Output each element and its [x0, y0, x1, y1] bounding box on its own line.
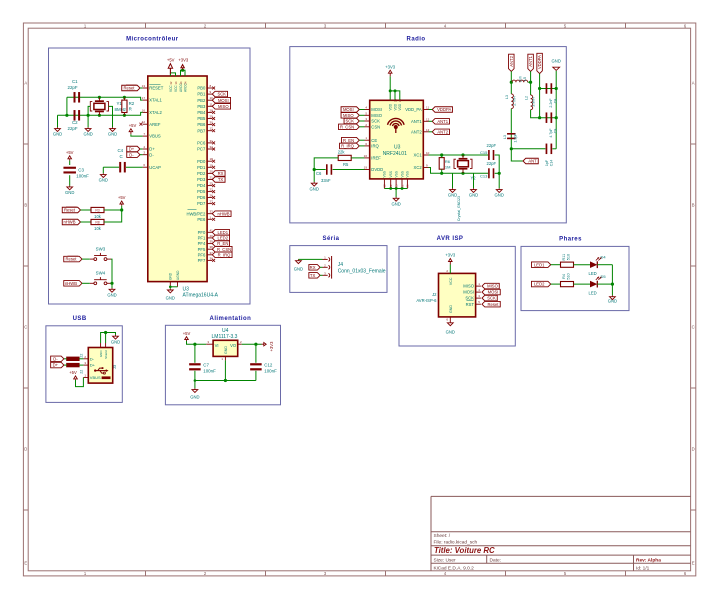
svg-text:ANT2: ANT2 [437, 129, 448, 134]
svg-text:J4: J4 [338, 262, 344, 268]
svg-text:D-: D- [53, 356, 58, 361]
svg-text:MOSI: MOSI [218, 98, 229, 103]
svg-text:D: D [692, 447, 695, 452]
svg-text:GND: GND [449, 305, 453, 313]
svg-text:25: 25 [394, 184, 398, 188]
svg-text:PF5: PF5 [198, 247, 206, 252]
svg-text:VDD: VDD [393, 103, 397, 110]
svg-text:PD7: PD7 [197, 201, 206, 206]
svg-text:B: B [24, 203, 27, 208]
svg-text:+5V: +5V [69, 370, 77, 375]
svg-text:+3V3: +3V3 [445, 253, 456, 258]
svg-text:12: 12 [426, 117, 430, 121]
svg-text:MOSI: MOSI [488, 290, 499, 295]
svg-text:16: 16 [364, 154, 368, 158]
svg-text:XC2: XC2 [414, 165, 423, 170]
svg-text:D+: D+ [149, 147, 155, 152]
svg-text:C: C [692, 325, 695, 330]
svg-text:GND: GND [53, 132, 62, 137]
svg-text:42: 42 [142, 120, 146, 124]
svg-text:PD2: PD2 [197, 171, 206, 176]
svg-text:L3: L3 [503, 135, 507, 139]
svg-text:510: 510 [567, 273, 571, 279]
svg-text:CSN: CSN [371, 124, 380, 129]
svg-text:10: 10 [426, 151, 430, 155]
svg-text:R_CSN: R_CSN [217, 247, 231, 252]
svg-text:D-: D- [129, 152, 134, 157]
svg-text:IREF: IREF [371, 156, 381, 161]
svg-text:GND: GND [310, 186, 319, 191]
svg-text:D+: D+ [53, 363, 59, 368]
svg-text:LED2: LED2 [534, 282, 545, 287]
svg-text:ANT1: ANT1 [411, 119, 422, 124]
svg-text:MOSI: MOSI [343, 107, 354, 112]
svg-text:U4: U4 [222, 328, 229, 334]
svg-text:USB: USB [73, 316, 87, 322]
svg-text:D-: D- [90, 356, 95, 361]
svg-text:LED: LED [589, 291, 597, 296]
svg-text:nHWB: nHWB [217, 211, 229, 216]
svg-text:Size: User: Size: User [434, 557, 457, 563]
svg-text:RX: RX [310, 265, 316, 270]
svg-text:11: 11 [426, 106, 429, 110]
svg-text:SCK: SCK [345, 119, 354, 124]
svg-text:VSS: VSS [389, 171, 393, 177]
svg-text:HWB/PE2: HWB/PE2 [186, 211, 206, 216]
svg-text:22: 22 [389, 184, 393, 188]
svg-text:R_IRQ: R_IRQ [341, 144, 355, 149]
svg-text:33nF: 33nF [321, 178, 331, 183]
svg-text:VSS: VSS [400, 171, 404, 177]
svg-text:PD5: PD5 [197, 189, 206, 194]
svg-text:VCC: VCC [174, 85, 178, 92]
svg-text:2.7nH: 2.7nH [512, 96, 516, 106]
svg-text:PF1: PF1 [198, 236, 206, 241]
svg-text:GND: GND [190, 394, 199, 399]
svg-text:U3: U3 [394, 144, 401, 150]
svg-text:L5: L5 [523, 77, 527, 81]
svg-text:1M: 1M [445, 164, 451, 169]
svg-text:AVR ISP: AVR ISP [437, 236, 464, 242]
svg-text:C6: C6 [316, 171, 322, 176]
svg-text:100nF: 100nF [203, 369, 216, 374]
svg-text:PF6: PF6 [198, 252, 206, 257]
svg-text:C1: C1 [72, 79, 78, 84]
svg-text:22pF: 22pF [68, 126, 78, 131]
svg-text:PB6: PB6 [197, 122, 206, 127]
svg-text:Reset: Reset [64, 208, 76, 213]
svg-text:PC7: PC7 [197, 147, 206, 152]
svg-text:AVR-ISP-6: AVR-ISP-6 [416, 298, 437, 303]
svg-text:D+: D+ [90, 363, 96, 368]
svg-text:Radio: Radio [407, 37, 426, 43]
svg-text:+5V: +5V [167, 58, 175, 63]
svg-text:LED: LED [589, 271, 597, 276]
svg-text:MOSI: MOSI [371, 107, 382, 112]
svg-text:PB5: PB5 [197, 116, 206, 121]
svg-text:PD1: PD1 [197, 165, 206, 170]
svg-text:GND: GND [107, 292, 116, 297]
svg-text:GND: GND [469, 193, 478, 198]
svg-text:GND: GND [448, 193, 457, 198]
svg-text:VSS: VSS [394, 171, 398, 177]
svg-text:PB2: PB2 [197, 98, 206, 103]
svg-text:PF0: PF0 [198, 230, 206, 235]
svg-text:Title: Voiture RC: Title: Voiture RC [434, 546, 495, 555]
svg-text:PF7: PF7 [198, 258, 206, 263]
svg-text:RX: RX [218, 171, 224, 176]
svg-text:B: B [692, 203, 695, 208]
svg-text:VSS: VSS [406, 171, 410, 177]
svg-text:R11: R11 [562, 254, 566, 261]
svg-text:ANT1: ANT1 [528, 55, 533, 66]
svg-text:2.2nF: 2.2nF [549, 98, 553, 108]
svg-text:PD3: PD3 [197, 177, 206, 182]
svg-text:1pF: 1pF [545, 159, 549, 166]
svg-text:ANT2: ANT2 [411, 129, 422, 134]
svg-text:J2: J2 [432, 292, 437, 297]
svg-text:8MHz: 8MHz [115, 107, 126, 112]
svg-text:AVCC: AVCC [179, 83, 183, 92]
svg-text:LED1: LED1 [218, 230, 229, 235]
svg-text:100nF: 100nF [76, 174, 89, 179]
svg-text:XTAL2: XTAL2 [149, 110, 162, 115]
svg-text:GND: GND [108, 132, 117, 137]
svg-text:AVCC: AVCC [183, 83, 187, 92]
svg-text:19: 19 [364, 166, 368, 170]
svg-text:+5V: +5V [66, 150, 74, 155]
svg-text:21: 21 [400, 184, 404, 188]
svg-text:+5V: +5V [118, 195, 126, 200]
svg-text:CE: CE [371, 138, 377, 143]
svg-text:GND: GND [111, 339, 120, 344]
svg-text:VCC: VCC [169, 85, 173, 92]
svg-text:D-: D- [149, 152, 154, 157]
svg-text:VDD: VDD [389, 103, 393, 110]
svg-text:TX: TX [218, 177, 224, 182]
svg-text:SCK: SCK [217, 92, 226, 97]
svg-text:Crystal_GND23: Crystal_GND23 [457, 196, 461, 221]
svg-text:PB4: PB4 [197, 110, 206, 115]
svg-text:GND: GND [224, 346, 228, 354]
svg-text:VBUS: VBUS [90, 375, 101, 380]
svg-text:D: D [24, 447, 27, 452]
svg-text:SCK: SCK [487, 296, 496, 301]
svg-text:+3V3: +3V3 [178, 58, 189, 63]
svg-text:32: 32 [169, 81, 173, 85]
svg-text:GND: GND [294, 266, 303, 271]
svg-text:GND: GND [99, 178, 108, 183]
svg-text:17: 17 [142, 96, 146, 100]
svg-text:PF4: PF4 [198, 241, 206, 246]
svg-text:16: 16 [142, 108, 146, 112]
svg-text:TX: TX [310, 273, 316, 278]
svg-text:30: 30 [398, 99, 402, 103]
svg-text:D4: D4 [601, 254, 607, 259]
svg-text:C4: C4 [118, 148, 124, 153]
svg-text:PD6: PD6 [197, 195, 206, 200]
svg-text:20: 20 [406, 184, 410, 188]
svg-text:GND: GND [169, 272, 173, 280]
svg-text:Conn_01x03_Female: Conn_01x03_Female [338, 268, 386, 274]
svg-text:SCK: SCK [371, 119, 380, 124]
svg-text:1.5pF: 1.5pF [514, 133, 518, 143]
svg-text:22k: 22k [338, 149, 346, 154]
svg-text:ANT1: ANT1 [437, 119, 448, 124]
svg-text:VBUS: VBUS [149, 134, 161, 139]
svg-text:22: 22 [79, 370, 83, 374]
svg-text:ATmega16U4-A: ATmega16U4-A [183, 292, 219, 298]
svg-text:R_CSN: R_CSN [340, 124, 354, 129]
svg-text:IRQ: IRQ [371, 144, 379, 149]
svg-text:LM1117-3.3: LM1117-3.3 [212, 334, 238, 340]
svg-text:LED1: LED1 [534, 262, 545, 267]
svg-text:XTAL1: XTAL1 [149, 98, 162, 103]
svg-text:+3V3: +3V3 [385, 64, 396, 69]
svg-text:VO: VO [230, 343, 237, 348]
svg-text:UCAP: UCAP [149, 165, 161, 170]
svg-text:R6: R6 [445, 159, 451, 164]
svg-text:MISO: MISO [343, 113, 354, 118]
svg-text:C8: C8 [553, 99, 557, 104]
svg-text:E: E [24, 561, 27, 566]
svg-text:4.7pF: 4.7pF [549, 128, 553, 138]
svg-text:nHWB: nHWB [63, 220, 75, 225]
svg-text:13: 13 [426, 128, 430, 132]
svg-text:DVDD: DVDD [371, 167, 383, 172]
svg-text:nHWB: nHWB [65, 281, 77, 286]
svg-text:Date:: Date: [490, 557, 501, 563]
svg-text:VDD: VDD [398, 103, 402, 110]
svg-text:File: radio.kicad_sch: File: radio.kicad_sch [434, 539, 478, 545]
svg-text:PD0: PD0 [197, 159, 206, 164]
svg-text:A: A [692, 81, 695, 86]
svg-text:GND: GND [65, 190, 74, 195]
svg-text:C15: C15 [480, 150, 488, 155]
svg-text:+5V: +5V [129, 123, 137, 128]
svg-text:Sheet: /: Sheet: / [434, 533, 451, 539]
svg-text:C3: C3 [78, 167, 84, 172]
svg-text:UGND: UGND [176, 270, 180, 280]
svg-text:C13: C13 [480, 174, 488, 179]
svg-text:C12: C12 [264, 362, 273, 367]
svg-text:C9: C9 [553, 129, 557, 134]
svg-text:L3: L3 [505, 95, 509, 99]
svg-text:+3V3: +3V3 [269, 341, 274, 352]
svg-text:PD4: PD4 [197, 183, 206, 188]
svg-text:15: 15 [393, 99, 397, 103]
svg-text:PB0: PB0 [197, 86, 206, 91]
svg-text:VI: VI [215, 343, 219, 348]
svg-text:C14: C14 [549, 160, 553, 167]
svg-text:KiCad E.D.A. 9.0.2: KiCad E.D.A. 9.0.2 [434, 565, 475, 571]
svg-text:VDDPA: VDDPA [437, 107, 451, 112]
svg-text:D5: D5 [601, 274, 607, 279]
svg-text:MISO: MISO [218, 104, 229, 109]
svg-text:Reset: Reset [66, 257, 78, 262]
svg-text:GND: GND [83, 132, 92, 137]
svg-text:R8: R8 [95, 220, 99, 224]
svg-text:GND: GND [166, 295, 175, 300]
svg-text:R4: R4 [562, 274, 566, 279]
svg-text:RESET: RESET [149, 86, 163, 91]
svg-text:R3: R3 [95, 208, 99, 212]
svg-text:RST: RST [466, 302, 475, 307]
svg-text:R: R [129, 107, 132, 112]
svg-text:NRF24L01: NRF24L01 [383, 151, 407, 157]
svg-text:Phares: Phares [559, 237, 582, 243]
svg-text:510: 510 [567, 254, 571, 260]
svg-text:Reset: Reset [124, 86, 136, 91]
svg-text:Id: 1/1: Id: 1/1 [636, 565, 650, 571]
svg-text:GND: GND [99, 350, 103, 358]
svg-text:10k: 10k [94, 226, 102, 231]
svg-text:PB3: PB3 [197, 104, 206, 109]
svg-text:R_EN: R_EN [217, 241, 228, 246]
svg-text:22: 22 [79, 354, 83, 358]
svg-text:PC6: PC6 [197, 141, 206, 146]
svg-text:18: 18 [383, 184, 387, 188]
svg-text:E: E [692, 561, 695, 566]
svg-text:SW3: SW3 [96, 247, 106, 252]
svg-text:13: 13 [142, 84, 146, 88]
svg-text:VDDPA: VDDPA [537, 55, 542, 69]
svg-text:Séria: Séria [323, 236, 340, 242]
svg-text:XC1: XC1 [414, 153, 423, 158]
svg-text:ANT: ANT [528, 159, 537, 164]
svg-text:22pF: 22pF [68, 85, 78, 90]
svg-text:Shield: Shield [104, 350, 108, 359]
svg-text:C: C [24, 325, 27, 330]
svg-text:14: 14 [174, 81, 178, 85]
svg-text:MISO: MISO [371, 113, 382, 118]
svg-text:PB7: PB7 [197, 128, 206, 133]
svg-text:GND: GND [552, 59, 561, 64]
svg-text:SCK: SCK [465, 296, 474, 301]
svg-text:Alimentation: Alimentation [210, 316, 252, 322]
svg-text:100nF: 100nF [264, 369, 277, 374]
svg-text:Reset: Reset [488, 302, 500, 307]
svg-text:SW4: SW4 [96, 270, 106, 275]
svg-text:R5: R5 [343, 162, 349, 167]
svg-text:22pF: 22pF [487, 161, 497, 166]
svg-text:GND: GND [446, 330, 455, 335]
svg-text:ANT2: ANT2 [509, 55, 514, 66]
svg-text:GND: GND [608, 299, 617, 304]
svg-text:Rev: Alpha: Rev: Alpha [636, 557, 661, 563]
svg-text:R_IRQ: R_IRQ [218, 252, 232, 257]
svg-text:L2: L2 [524, 96, 528, 100]
svg-text:A: A [24, 81, 27, 86]
svg-text:Microcontrôleur: Microcontrôleur [126, 37, 179, 43]
svg-text:MOSI: MOSI [463, 290, 474, 295]
svg-text:MISO: MISO [487, 284, 498, 289]
svg-text:R2: R2 [129, 101, 135, 106]
svg-text:3.9nH: 3.9nH [532, 97, 536, 107]
svg-text:VCC: VCC [449, 277, 453, 285]
svg-text:PB1: PB1 [197, 92, 206, 97]
svg-text:VSS: VSS [383, 171, 387, 177]
svg-text:C7: C7 [203, 362, 209, 367]
svg-text:C2: C2 [72, 120, 78, 125]
svg-text:GND: GND [391, 201, 400, 206]
svg-text:D+: D+ [129, 147, 135, 152]
svg-text:GND: GND [495, 193, 504, 198]
svg-text:22pF: 22pF [487, 143, 497, 148]
svg-text:PE6: PE6 [197, 217, 206, 222]
svg-text:10k: 10k [94, 214, 102, 219]
svg-text:MISO: MISO [463, 284, 474, 289]
svg-text:R_EN: R_EN [343, 138, 354, 143]
svg-text:VDD_PA: VDD_PA [405, 107, 422, 112]
svg-text:+5V: +5V [183, 331, 191, 336]
svg-text:LED2: LED2 [218, 236, 229, 241]
svg-text:AREF: AREF [149, 122, 161, 127]
svg-text:C: C [120, 154, 123, 159]
svg-text:2nh: 2nh [519, 76, 523, 82]
